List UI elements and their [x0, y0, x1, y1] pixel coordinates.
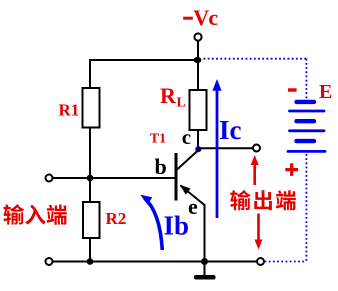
label -Vc (supply) [183, 5, 218, 30]
battery E: plate 5 (short) [297, 139, 315, 143]
wire: -Vc terminal to top node [197, 41, 199, 60]
battery minus sign (red) [288, 88, 297, 91]
svg-text:Vc: Vc [193, 5, 218, 30]
wire: base node to R2 [89, 178, 91, 202]
node: bottom-left junction (dot) [87, 258, 94, 265]
battery E: plate 4 (long) [290, 129, 325, 132]
red arrow up (to output top) [251, 155, 259, 185]
label RL [160, 83, 186, 111]
wire: top rail [89, 59, 198, 61]
ground: bar [194, 275, 216, 280]
node: base junction (dot) [87, 175, 94, 182]
svg-text:R: R [160, 83, 177, 108]
battery E: plate 6 (long) [288, 150, 325, 153]
node: emitter junction (dot) [201, 258, 208, 265]
svg-text:E: E [319, 81, 332, 103]
wire: emitter drop [204, 204, 206, 262]
wire: left drop to R1 [89, 59, 91, 89]
svg-text:Ic: Ic [219, 115, 242, 145]
ground: stub [204, 262, 206, 276]
current arrow Ic (blue) [212, 79, 221, 218]
node: top junction (dot) [194, 57, 202, 63]
resistor RL (body) [190, 90, 207, 130]
svg-text:L: L [177, 96, 186, 111]
svg-text:e: e [188, 194, 198, 219]
terminal: output top (open circle) [253, 145, 260, 152]
battery E: plate 2 (long) [290, 110, 325, 113]
dotted wire: down to battery top (vertical) [305, 59, 307, 99]
label 输出端 (output terminal) [230, 190, 296, 210]
label 输入端 (input terminal) [3, 204, 66, 224]
terminal: input bottom (open circle) [46, 258, 53, 265]
red arrow down (to output bottom) [255, 214, 263, 250]
svg-text:b: b [155, 154, 167, 179]
transistor T1: collector lead [177, 150, 199, 170]
wire: R2 to bottom rail [89, 238, 91, 262]
terminal: input top (open circle) [46, 175, 53, 182]
wire: base rail [53, 177, 176, 179]
transistor T1: base bar [175, 153, 178, 201]
current arrow Ib (blue curved) [140, 195, 162, 250]
svg-text:T1: T1 [150, 132, 166, 147]
battery plus sign (red) [285, 163, 298, 176]
dotted wire: to output bottom terminal (horizontal) [265, 261, 307, 263]
node: collector junction (blue dot) [195, 146, 201, 152]
terminal: output bottom (open circle) [257, 258, 264, 265]
svg-text:Ib: Ib [164, 211, 190, 241]
svg-text:R1: R1 [59, 101, 80, 120]
dotted wire: top node to battery (horizontal) [204, 58, 308, 60]
battery E: plate 3 (short) [297, 119, 315, 123]
resistor R2 (body) [83, 202, 100, 238]
svg-text:c: c [182, 125, 191, 149]
resistor R1 (body) [83, 88, 100, 128]
wire: R1 to base node [89, 128, 91, 180]
svg-text:R2: R2 [106, 209, 127, 228]
wire: collector rail to output [198, 147, 253, 149]
wire: bottom rail [53, 261, 258, 263]
terminal -Vc (open circle) [194, 33, 201, 40]
battery E: plate 1 (short) [297, 100, 315, 104]
transistor T1: emitter lead [181, 186, 205, 206]
dotted wire: battery bottom down (vertical) [305, 154, 307, 262]
transistor T1: emitter arrowhead (PNP, points to base) [180, 185, 191, 195]
wire: RL to collector node [197, 130, 199, 150]
wire: center drop to RL [197, 60, 199, 90]
